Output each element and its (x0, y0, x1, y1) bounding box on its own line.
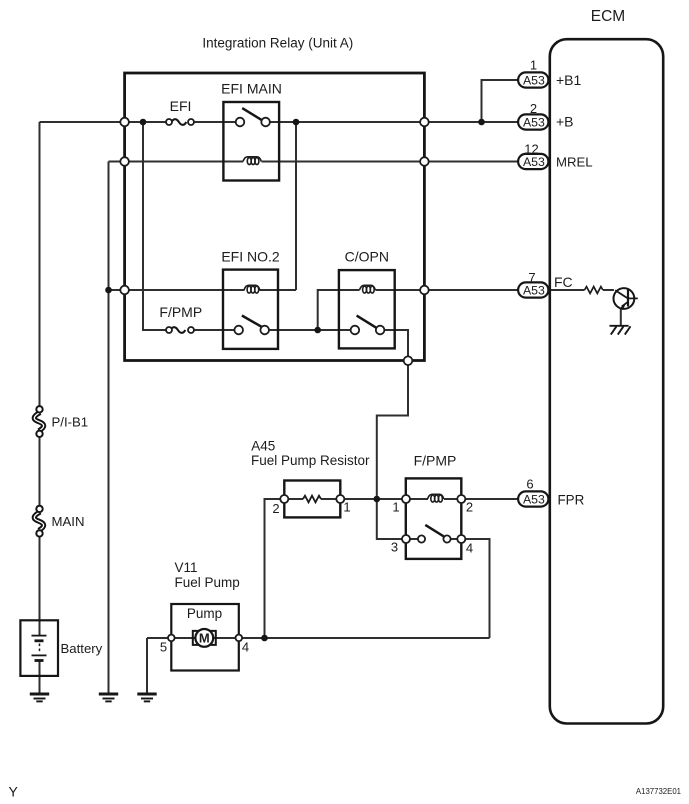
wire branch vertical x296 (295, 122, 297, 290)
wire F/PMP fuse feed vertical x143 (143, 122, 169, 330)
resistor A45 zigzag (303, 496, 321, 503)
wire FC resistor to transistor (603, 289, 614, 291)
svg-text:EFI NO.2: EFI NO.2 (221, 249, 280, 265)
wire +B main top row (40, 121, 170, 123)
svg-text:6: 6 (526, 477, 533, 492)
relay C/OPN coil (360, 285, 376, 293)
svg-text:P/I-B1: P/I-B1 (52, 415, 89, 430)
svg-text:+B: +B (556, 114, 574, 130)
relay F/PMP contacts (418, 535, 425, 542)
wire between P/I-B1 and MAIN links (39, 434, 41, 509)
fuse F/PMP wavy (171, 327, 186, 333)
relay EFI MAIN switch blade (242, 108, 262, 120)
node +B1 branch (478, 119, 485, 126)
svg-text:1: 1 (530, 58, 537, 73)
wire battery to ground (39, 661, 41, 693)
node relay box bottom out (404, 356, 413, 365)
wire F/PMP fuse to EFI NO.2 switch (191, 329, 239, 331)
fusible link MAIN (34, 506, 43, 537)
svg-text:A53: A53 (523, 155, 545, 169)
svg-text:A53: A53 (523, 493, 545, 507)
fusible link P/I-B1 (34, 406, 43, 437)
ground mid (MREL line) (99, 694, 118, 701)
node relay box right FC (420, 286, 429, 295)
node relay box right MREL (420, 157, 429, 166)
wire FC inside ECM to resistor (550, 289, 585, 291)
relay EFI MAIN box (223, 102, 279, 181)
wire resistor row lead left (284, 498, 303, 500)
relay C/OPN box (339, 270, 395, 348)
fuse EFI wavy (172, 119, 187, 125)
svg-text:5: 5 (160, 640, 167, 655)
svg-text:12: 12 (524, 142, 538, 157)
svg-text:4: 4 (242, 640, 249, 655)
wire resistor pin2 to pump junction (265, 499, 285, 638)
svg-text:FPR: FPR (558, 492, 585, 507)
svg-text:A137732E01: A137732E01 (636, 787, 681, 796)
wire C/OPN coil to FC pin (376, 289, 519, 291)
pump pins (168, 635, 175, 642)
wire left battery vertical upper (39, 122, 41, 409)
svg-text:F/PMP: F/PMP (159, 304, 202, 320)
relay EFI NO.2 switch blade (242, 316, 263, 328)
node F/PMP pin1 (374, 496, 381, 503)
fuel pump resistor A45 box (284, 481, 340, 518)
svg-text:A53: A53 (523, 74, 545, 88)
svg-text:2: 2 (530, 101, 537, 116)
svg-text:MAIN: MAIN (52, 514, 85, 529)
fuel pump V11 box (171, 604, 239, 671)
fuel pump motor M (193, 629, 216, 647)
svg-text:Pump: Pump (187, 606, 222, 621)
node EFI NO.2 branch (293, 119, 300, 126)
battery plates (32, 636, 47, 661)
integration relay outer box (125, 73, 425, 361)
wire F/PMP coil lead left (406, 498, 428, 500)
ground below battery (30, 694, 49, 701)
node MREL ground (105, 287, 112, 294)
svg-text:Fuel Pump: Fuel Pump (175, 575, 240, 590)
wire fuse EFI to switch contact (191, 121, 240, 123)
svg-text:Integration Relay (Unit A): Integration Relay (Unit A) (202, 35, 353, 50)
wire fuel pump row (147, 637, 490, 639)
relay C/OPN contacts (351, 326, 360, 335)
wire pump pin5 to ground (146, 638, 148, 693)
svg-text:M: M (199, 631, 210, 646)
node relay box left MREL (120, 157, 129, 166)
wire +B1 branch (482, 80, 519, 122)
fuse F/PMP terminals (166, 327, 172, 333)
ECM box (550, 39, 663, 723)
svg-text:A53: A53 (523, 116, 545, 130)
svg-text:4: 4 (466, 541, 473, 556)
relay C/OPN switch blade (357, 316, 379, 330)
svg-text:V11: V11 (175, 560, 198, 575)
svg-text:F/PMP: F/PMP (414, 453, 457, 469)
wire MAIN link to battery (39, 533, 41, 635)
wire EFI MAIN switch out to +B pin (266, 121, 519, 123)
FC resistor zigzag (585, 287, 603, 294)
node EFI fuse feed (140, 119, 147, 126)
relay EFI NO.2 contacts (234, 326, 243, 335)
wire F/PMP pin2 to FPR pin (444, 498, 519, 500)
wire C/OPN switch out (377, 330, 422, 539)
node relay box left coil row (120, 286, 129, 295)
wire MREL coil to pin 12 (262, 161, 519, 163)
svg-text:MREL: MREL (556, 154, 593, 169)
node relay box right +B (420, 118, 429, 127)
svg-text:Fuel Pump Resistor: Fuel Pump Resistor (251, 453, 370, 468)
svg-text:3: 3 (391, 540, 398, 555)
svg-text:A53: A53 (523, 284, 545, 298)
svg-text:2: 2 (272, 501, 279, 516)
wire EFI NO.2 coil row left (109, 289, 245, 291)
connector A53 pin 12 (518, 154, 548, 169)
relay EFI NO.2 coil (244, 285, 260, 293)
connector A53 pin 2 (518, 114, 548, 129)
svg-text:2: 2 (466, 500, 473, 515)
resistor A45 pins (280, 495, 288, 503)
svg-text:EFI: EFI (170, 98, 192, 114)
wire C/OPN coil left drop (318, 290, 360, 330)
wire ground vertical x108 (108, 162, 110, 693)
chassis ground at transistor (610, 326, 631, 335)
relay F/PMP coil (428, 494, 444, 502)
connector A53 pin 7 (518, 282, 548, 297)
svg-text:+B1: +B1 (556, 72, 582, 88)
relay EFI NO.2 box (223, 270, 278, 349)
svg-text:ECM: ECM (591, 8, 625, 25)
svg-text:1: 1 (392, 500, 399, 515)
relay F/PMP switch blade (425, 525, 446, 538)
svg-text:A45: A45 (251, 438, 275, 453)
wire EFI NO.2 switch to C/OPN switch (265, 329, 355, 331)
relay F/PMP box (406, 478, 462, 559)
svg-text:7: 7 (528, 270, 535, 285)
node C/OPN coil (314, 327, 321, 334)
svg-text:EFI MAIN: EFI MAIN (221, 81, 282, 97)
wire F/PMP switch contact to pin4 out (447, 539, 490, 638)
relay EFI MAIN coil (243, 157, 261, 165)
wire transistor emitter to ground (620, 308, 622, 326)
svg-text:FC: FC (554, 274, 573, 290)
node relay box left +B (120, 118, 129, 127)
wire MREL row left to coil (109, 161, 244, 163)
fuse EFI terminals (166, 119, 172, 125)
terminal circles (120, 118, 465, 642)
svg-text:Y: Y (9, 784, 19, 800)
wire EFI NO.2 coil to branch (260, 289, 297, 291)
connector A53 pin 6 (518, 491, 548, 506)
relay EFI MAIN contacts (236, 118, 245, 127)
wire resistor pin1 to F/PMP pin1 (321, 498, 406, 500)
transistor in ECM (614, 288, 638, 310)
node pump pin4 (261, 635, 268, 642)
svg-text:C/OPN: C/OPN (345, 249, 389, 265)
battery box (20, 620, 58, 676)
svg-text:1: 1 (343, 500, 350, 515)
svg-text:Battery: Battery (61, 641, 103, 656)
relay F/PMP pins (402, 495, 410, 503)
connector A53 pin 1 (518, 72, 548, 87)
ground at fuel pump (137, 694, 156, 701)
